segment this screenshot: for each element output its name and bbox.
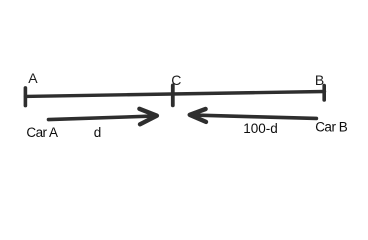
node B tick xyxy=(322,86,326,101)
svg-text:B: B xyxy=(315,72,324,88)
svg-text:Car B: Car B xyxy=(315,120,348,135)
wire main number line A to B xyxy=(26,92,325,97)
svg-text:C: C xyxy=(171,72,181,88)
svg-text:Car A: Car A xyxy=(26,125,58,140)
arrow Car A (points right) xyxy=(49,109,157,125)
svg-text:A: A xyxy=(28,70,38,86)
node A tick xyxy=(24,88,28,106)
node C tick xyxy=(171,85,175,105)
arrow Car B (points left) xyxy=(190,109,317,122)
svg-text:d: d xyxy=(94,125,102,140)
svg-text:100-d: 100-d xyxy=(243,121,278,136)
